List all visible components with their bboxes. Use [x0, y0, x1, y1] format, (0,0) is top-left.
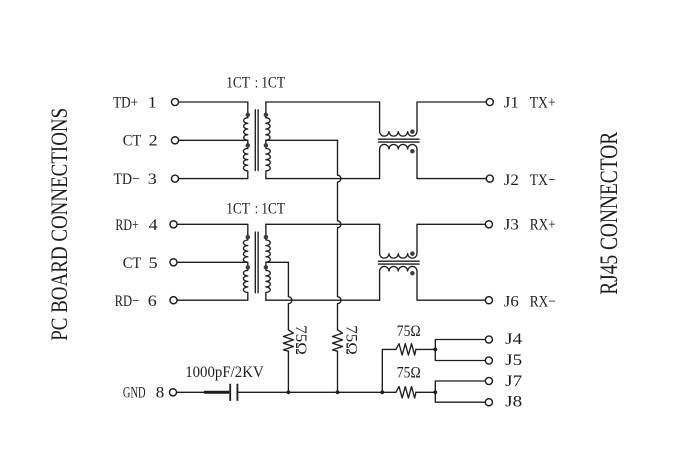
svg-text:TD−: TD− — [114, 171, 140, 188]
svg-text:J4: J4 — [505, 331, 522, 348]
svg-text:CT: CT — [123, 133, 142, 150]
svg-text:RX−: RX− — [530, 293, 556, 310]
svg-text:75Ω: 75Ω — [397, 323, 421, 340]
svg-text:75Ω: 75Ω — [397, 365, 421, 382]
svg-text:TD+: TD+ — [113, 94, 138, 111]
svg-text::: : — [255, 201, 258, 218]
svg-text:75Ω: 75Ω — [292, 325, 309, 355]
svg-text:8: 8 — [156, 385, 165, 402]
svg-text:J1: J1 — [504, 94, 519, 111]
svg-text:1CT: 1CT — [261, 201, 285, 218]
svg-text:1CT: 1CT — [226, 201, 250, 218]
svg-text:75Ω: 75Ω — [343, 325, 360, 355]
svg-text:1CT: 1CT — [226, 74, 250, 91]
svg-text:TX+: TX+ — [530, 94, 556, 111]
svg-text:RJ45 CONNECTOR: RJ45 CONNECTOR — [596, 132, 623, 295]
svg-text:J7: J7 — [505, 373, 522, 390]
svg-text:RX+: RX+ — [530, 217, 556, 234]
svg-text:J5: J5 — [505, 352, 522, 369]
svg-text:J6: J6 — [504, 293, 519, 310]
svg-text:J8: J8 — [505, 393, 522, 410]
svg-text:3: 3 — [148, 171, 157, 188]
svg-text:RD−: RD− — [115, 293, 140, 310]
svg-text:PC BOARD CONNECTIONS: PC BOARD CONNECTIONS — [47, 108, 72, 341]
svg-text:5: 5 — [149, 255, 158, 272]
svg-text:2: 2 — [149, 133, 158, 150]
svg-text:1CT: 1CT — [261, 74, 285, 91]
svg-text:1: 1 — [148, 94, 157, 111]
svg-text:CT: CT — [123, 255, 142, 272]
svg-text:4: 4 — [149, 217, 158, 234]
svg-text:TX−: TX− — [530, 172, 556, 189]
svg-text:GND: GND — [123, 385, 146, 402]
svg-text:RD+: RD+ — [115, 217, 138, 234]
svg-text::: : — [255, 74, 258, 91]
svg-text:J3: J3 — [504, 217, 519, 234]
svg-text:J2: J2 — [504, 172, 519, 189]
svg-text:6: 6 — [148, 293, 157, 310]
svg-text:1000pF/2KV: 1000pF/2KV — [185, 364, 264, 381]
